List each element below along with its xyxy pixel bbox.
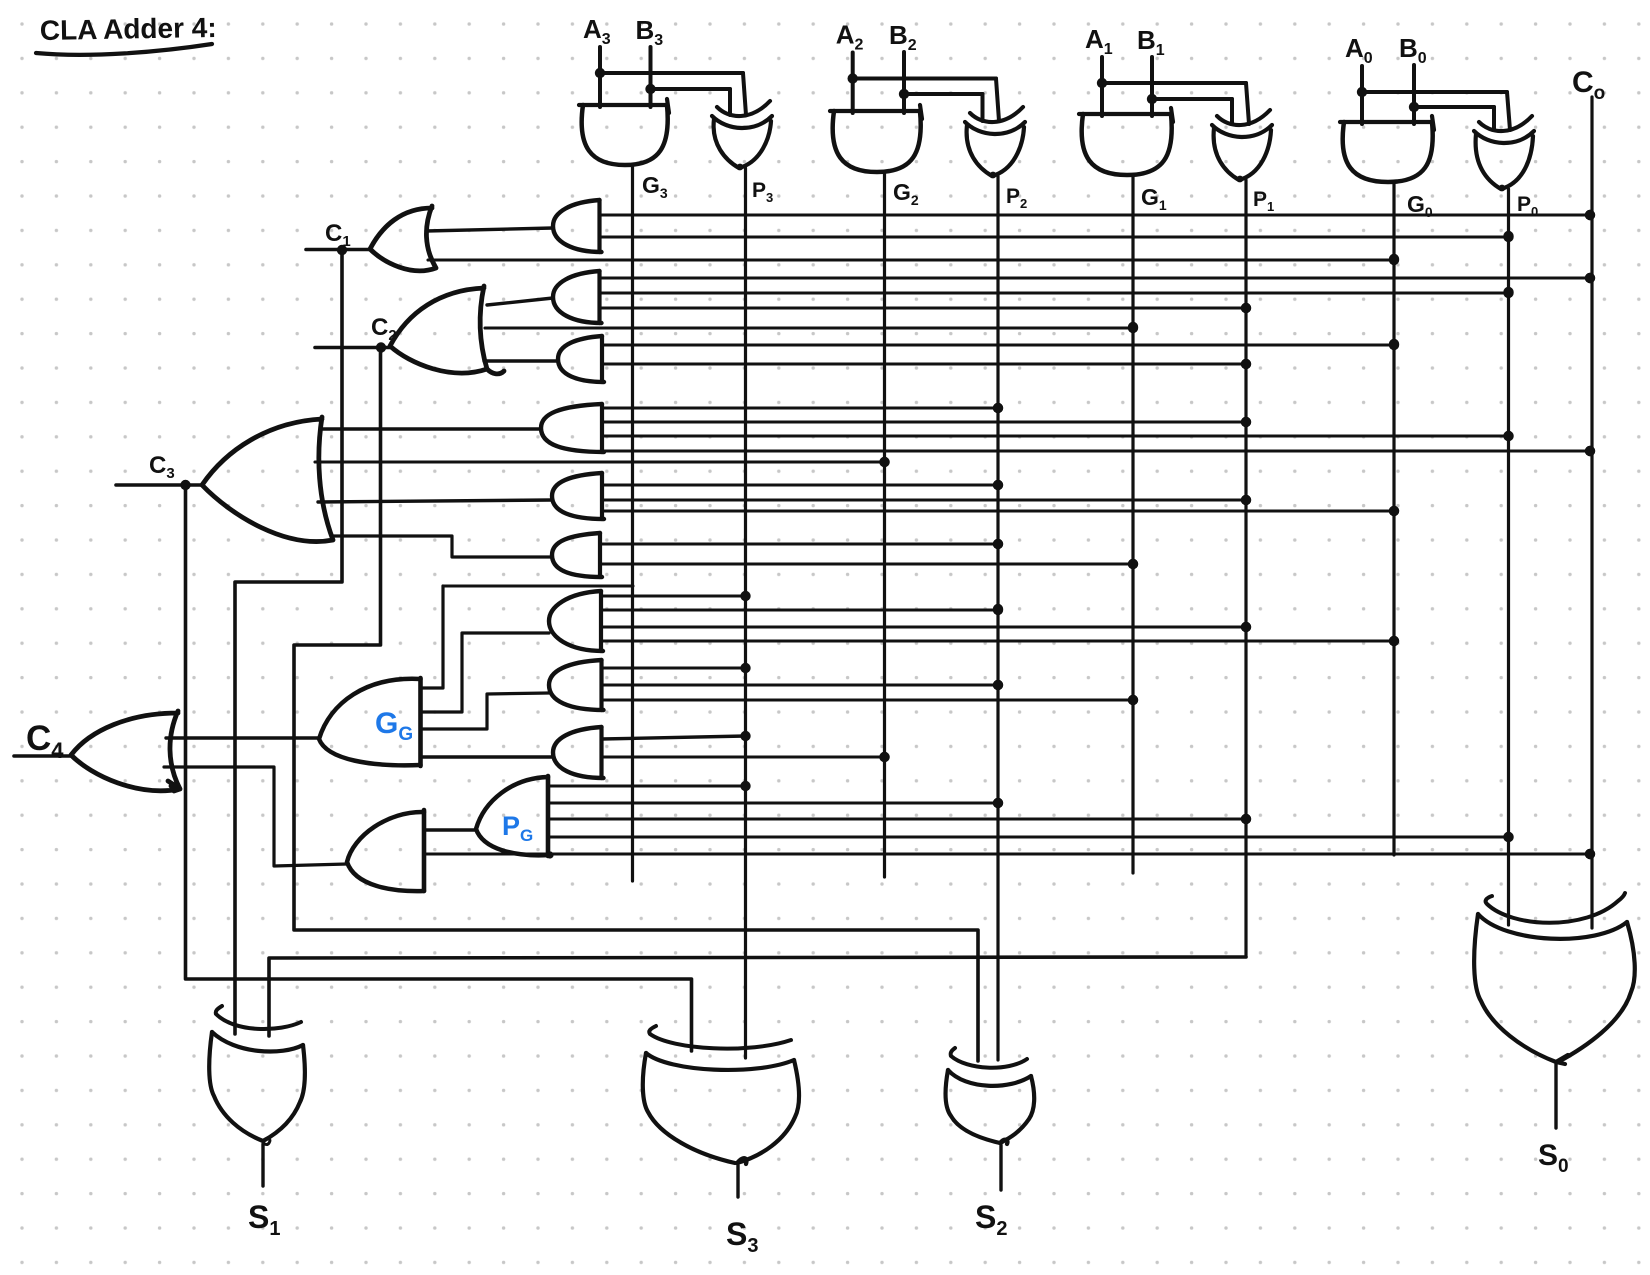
- svg-text:CLA Adder 4:: CLA Adder 4:: [40, 12, 217, 46]
